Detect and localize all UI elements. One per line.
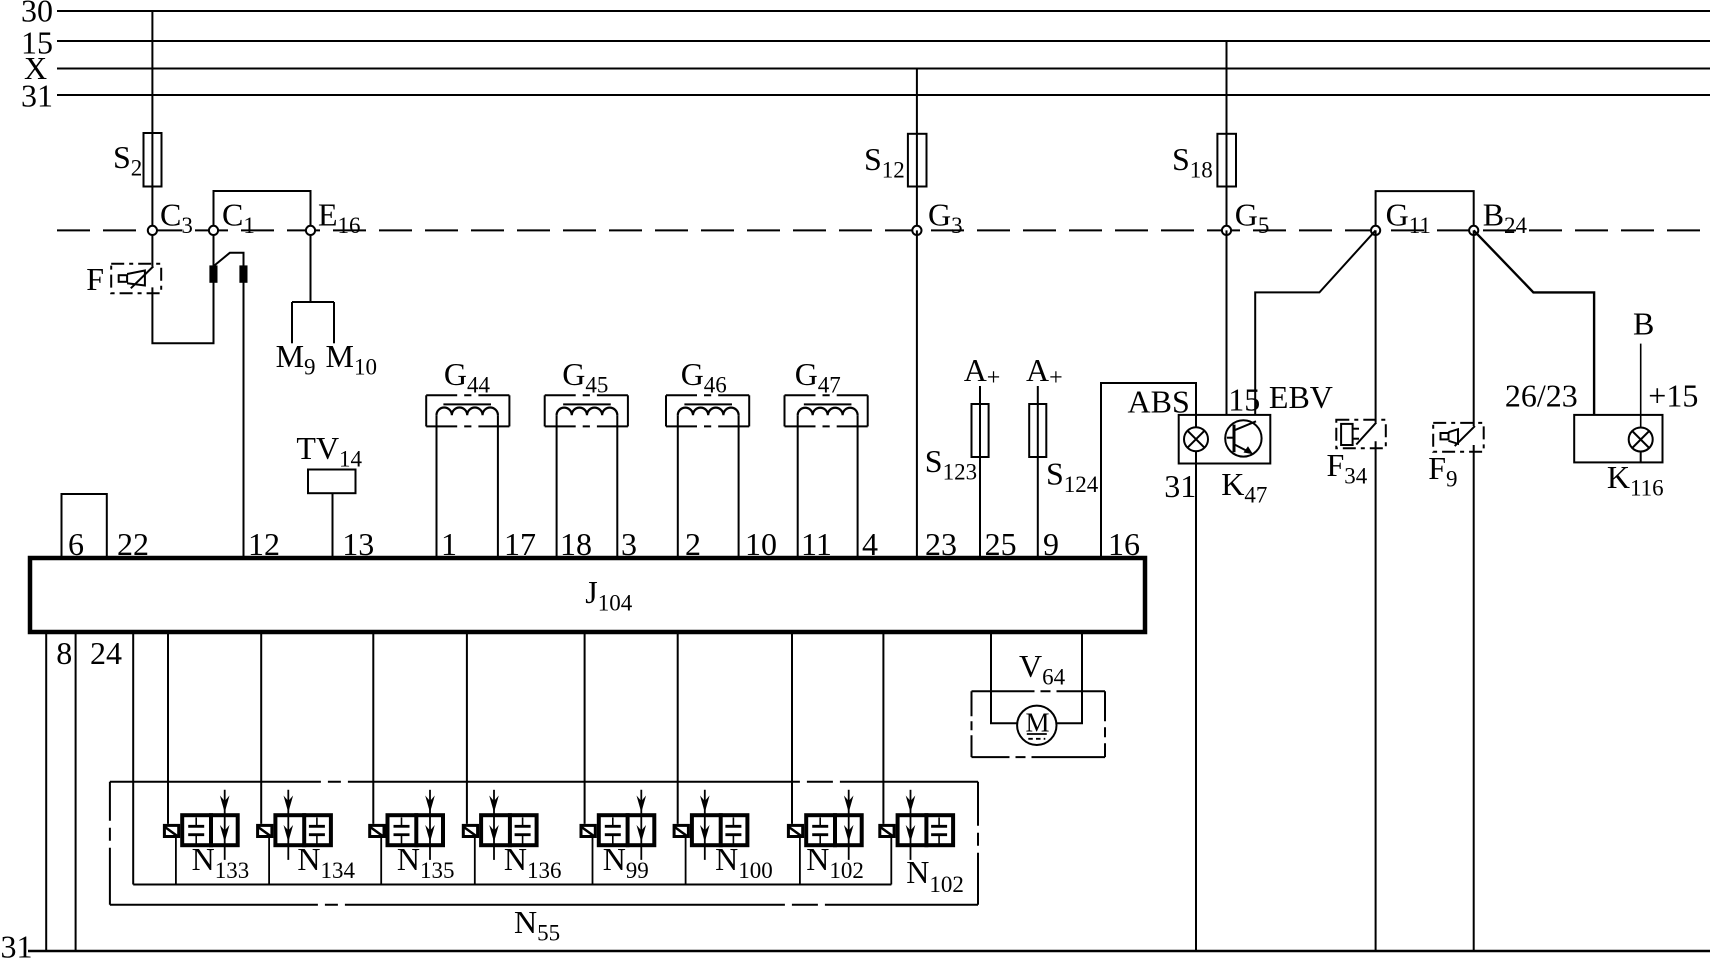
svg-text:ABS: ABS <box>1128 384 1190 420</box>
svg-text:N102: N102 <box>906 854 964 897</box>
wire: J104 to valve N136 solenoid <box>466 632 468 824</box>
svg-text:25: 25 <box>985 526 1017 562</box>
wire: valve N102 tab to return rail <box>890 838 892 885</box>
svg-text:N136: N136 <box>504 841 562 883</box>
wire: terminal B down into K116 lamp <box>1640 344 1642 428</box>
svg-text:M: M <box>1026 708 1050 738</box>
wire: valve N134 tab to return rail <box>268 838 270 885</box>
wire: valve N133 tab to return rail <box>175 838 177 885</box>
valve N135 <box>370 790 444 860</box>
valve return rail <box>133 884 891 886</box>
svg-text:V64: V64 <box>1019 648 1066 690</box>
wire: bridge C1 to E16 <box>214 191 311 230</box>
wire: jumper pin 6 to pin 22 <box>62 494 107 558</box>
node E16 <box>306 226 315 235</box>
svg-text:13: 13 <box>342 526 374 562</box>
svg-text:10: 10 <box>745 526 777 562</box>
svg-text:31: 31 <box>21 78 53 114</box>
svg-text:S12: S12 <box>864 141 905 183</box>
wire: G11 down to F34 <box>1375 230 1377 422</box>
svg-text:EBV: EBV <box>1269 379 1333 415</box>
svg-text:M10: M10 <box>326 338 377 380</box>
fuse S124 <box>1029 404 1046 457</box>
connector pair at C1 <box>210 253 246 282</box>
wire: valve N136 tab to return rail <box>474 838 476 885</box>
wire: J104 pin 16 to K47 ABS lamp <box>1101 383 1196 558</box>
wire: G46 to pin 10 <box>738 415 740 558</box>
node C1 <box>209 226 218 235</box>
svg-text:4: 4 <box>862 526 878 562</box>
wire: J104 to valve N102 solenoid <box>791 632 793 824</box>
svg-text:22: 22 <box>117 526 149 562</box>
fuse S123 <box>972 404 989 457</box>
bus line 15 <box>57 40 1710 42</box>
switch F <box>111 264 161 293</box>
wire: G44 to pin 1 <box>436 415 438 558</box>
wire: bridge G11 to B24 <box>1376 191 1474 230</box>
wire: bus 30 down to C3 <box>151 11 153 230</box>
bus line X <box>57 68 1710 70</box>
node G3 <box>912 226 921 235</box>
dashed terminal line <box>57 229 1706 231</box>
wire: B24 down to F9 <box>1473 230 1475 426</box>
wire: J104 to V64 motor (right) <box>1057 632 1082 723</box>
wire: G46 to pin 2 <box>677 415 679 558</box>
svg-text:G44: G44 <box>444 356 491 398</box>
svg-text:C3: C3 <box>160 197 193 239</box>
wire: A+ through S124 to pin 9 <box>1037 386 1039 558</box>
valve N100 <box>674 790 748 860</box>
wire: G5 to K47 pin 15 <box>1226 230 1228 415</box>
svg-text:A+: A+ <box>964 352 1001 391</box>
svg-text:G47: G47 <box>795 356 841 398</box>
wire: G44 to pin 17 <box>497 415 499 558</box>
svg-text:S2: S2 <box>113 139 142 181</box>
svg-text:N102: N102 <box>806 841 864 883</box>
wire: J104 to valve N134 solenoid <box>260 632 262 824</box>
svg-text:G3: G3 <box>928 197 963 239</box>
svg-text:C1: C1 <box>222 197 255 239</box>
wire: J104 pin 24 to ground rail <box>75 632 77 951</box>
lamp unit K116 <box>1574 415 1662 463</box>
wire: G47 to pin 11 <box>797 415 799 558</box>
svg-text:N55: N55 <box>514 904 560 946</box>
svg-text:B24: B24 <box>1483 197 1528 239</box>
wire: J104 to V64 motor (left) <box>991 632 1017 723</box>
wire: F to connector C1 <box>152 282 213 344</box>
svg-text:2: 2 <box>685 526 701 562</box>
wire: G11 to K47 EBV input <box>1255 230 1375 415</box>
svg-text:F9: F9 <box>1428 450 1457 492</box>
wire: A+ through S123 to pin 25 <box>979 386 981 558</box>
svg-text:16: 16 <box>1108 526 1140 562</box>
svg-text:31: 31 <box>1 929 33 963</box>
valve N133 <box>164 790 238 860</box>
wire: K47 pin 31 to ground rail <box>1195 464 1197 952</box>
wire: G45 to pin 18 <box>556 415 558 558</box>
wire: connector to J104 pin 12 <box>243 282 245 558</box>
valve N134 <box>257 790 331 860</box>
svg-text:M9: M9 <box>276 338 316 380</box>
wire: F34 to ground rail <box>1375 441 1377 951</box>
svg-text:31: 31 <box>1164 468 1196 504</box>
wire: valve N102 tab to return rail <box>799 838 801 885</box>
svg-text:8: 8 <box>56 635 72 671</box>
svg-text:K116: K116 <box>1607 459 1664 501</box>
fuse S18 <box>1217 134 1236 187</box>
fuse S2 <box>144 133 162 187</box>
wire: G45 to pin 3 <box>616 415 618 558</box>
sensor G45 <box>545 395 628 426</box>
svg-text:S123: S123 <box>925 443 977 485</box>
sensor G47 <box>785 395 868 426</box>
svg-text:G11: G11 <box>1386 197 1431 239</box>
svg-text:G5: G5 <box>1235 197 1270 239</box>
sensor G44 <box>426 395 509 426</box>
pump V64 <box>972 691 1106 757</box>
wire: F9 to ground rail <box>1473 445 1475 951</box>
wire: C3 down into switch F <box>151 230 153 266</box>
wire: G3 to J104 pin 23 <box>916 230 918 558</box>
bus line 31 <box>57 94 1710 96</box>
svg-text:18: 18 <box>560 526 592 562</box>
wire: J104 to valve N100 solenoid <box>677 632 679 824</box>
svg-text:11: 11 <box>801 526 832 562</box>
wire: J104 pin 8 to ground rail <box>45 632 47 951</box>
svg-text:N135: N135 <box>397 841 455 883</box>
switch F9 <box>1433 423 1484 452</box>
wire: valve N99 tab to return rail <box>592 838 594 885</box>
wire: G47 to pin 4 <box>857 415 859 558</box>
svg-text:1: 1 <box>441 526 457 562</box>
svg-text:17: 17 <box>504 526 536 562</box>
wire: B24 to K116 terminal 26/23 <box>1474 230 1594 415</box>
relay/lamp unit K47 <box>1179 415 1271 464</box>
svg-text:K47: K47 <box>1221 466 1267 508</box>
svg-text:9: 9 <box>1043 526 1059 562</box>
switch F34 <box>1336 420 1386 449</box>
svg-text:E16: E16 <box>318 197 361 239</box>
wire: valve N100 tab to return rail <box>685 838 687 885</box>
svg-text:G46: G46 <box>681 356 727 398</box>
valve N102 <box>788 790 862 860</box>
wire: J104 to valve N135 solenoid <box>372 632 374 824</box>
node B24 <box>1469 226 1478 235</box>
svg-text:+15: +15 <box>1648 378 1698 414</box>
valve block N55 <box>110 782 978 905</box>
svg-text:12: 12 <box>248 526 280 562</box>
sensor G46 <box>666 395 749 426</box>
fuse S12 <box>908 134 927 187</box>
wire: J104 to valve N102 solenoid <box>882 632 884 824</box>
wire: C1 down to connector <box>213 230 215 266</box>
wire: E16 fork to M9 and M10 <box>292 230 334 343</box>
svg-text:26/23: 26/23 <box>1505 378 1578 414</box>
node G5 <box>1222 226 1231 235</box>
wire: J104 to valve N133 solenoid <box>167 632 169 824</box>
node G11 <box>1371 226 1380 235</box>
svg-text:S18: S18 <box>1172 141 1213 183</box>
svg-text:TV14: TV14 <box>296 430 362 472</box>
svg-text:S124: S124 <box>1046 456 1099 498</box>
valve N99 <box>581 790 655 860</box>
svg-text:N100: N100 <box>715 841 773 883</box>
svg-text:6: 6 <box>68 526 84 562</box>
component TV14 <box>308 470 356 494</box>
svg-text:23: 23 <box>925 526 957 562</box>
control unit J104 <box>30 558 1145 632</box>
svg-text:G45: G45 <box>562 356 608 398</box>
svg-text:24: 24 <box>90 635 122 671</box>
wire: bus 15 down to G5 <box>1226 41 1228 230</box>
wire: valve N135 tab to return rail <box>380 838 382 885</box>
svg-text:B: B <box>1633 306 1654 342</box>
svg-text:F: F <box>86 261 104 297</box>
wire: J104 to valve N99 solenoid <box>584 632 586 824</box>
valve N136 <box>463 790 536 860</box>
svg-text:F34: F34 <box>1327 447 1368 489</box>
wire: TV14 to J104 pin 13 <box>332 493 334 558</box>
wire: J104 to valve return rail <box>132 632 134 885</box>
wire: bus X down to G3 <box>916 69 918 231</box>
node C3 <box>148 226 157 235</box>
svg-text:N134: N134 <box>297 841 355 883</box>
svg-text:A+: A+ <box>1026 352 1063 391</box>
bus line 30 <box>57 10 1710 12</box>
svg-text:3: 3 <box>621 526 637 562</box>
ground rail 31 <box>28 950 1710 952</box>
svg-text:J104: J104 <box>585 574 632 616</box>
valve N102 <box>880 790 954 860</box>
svg-text:N133: N133 <box>192 841 250 883</box>
